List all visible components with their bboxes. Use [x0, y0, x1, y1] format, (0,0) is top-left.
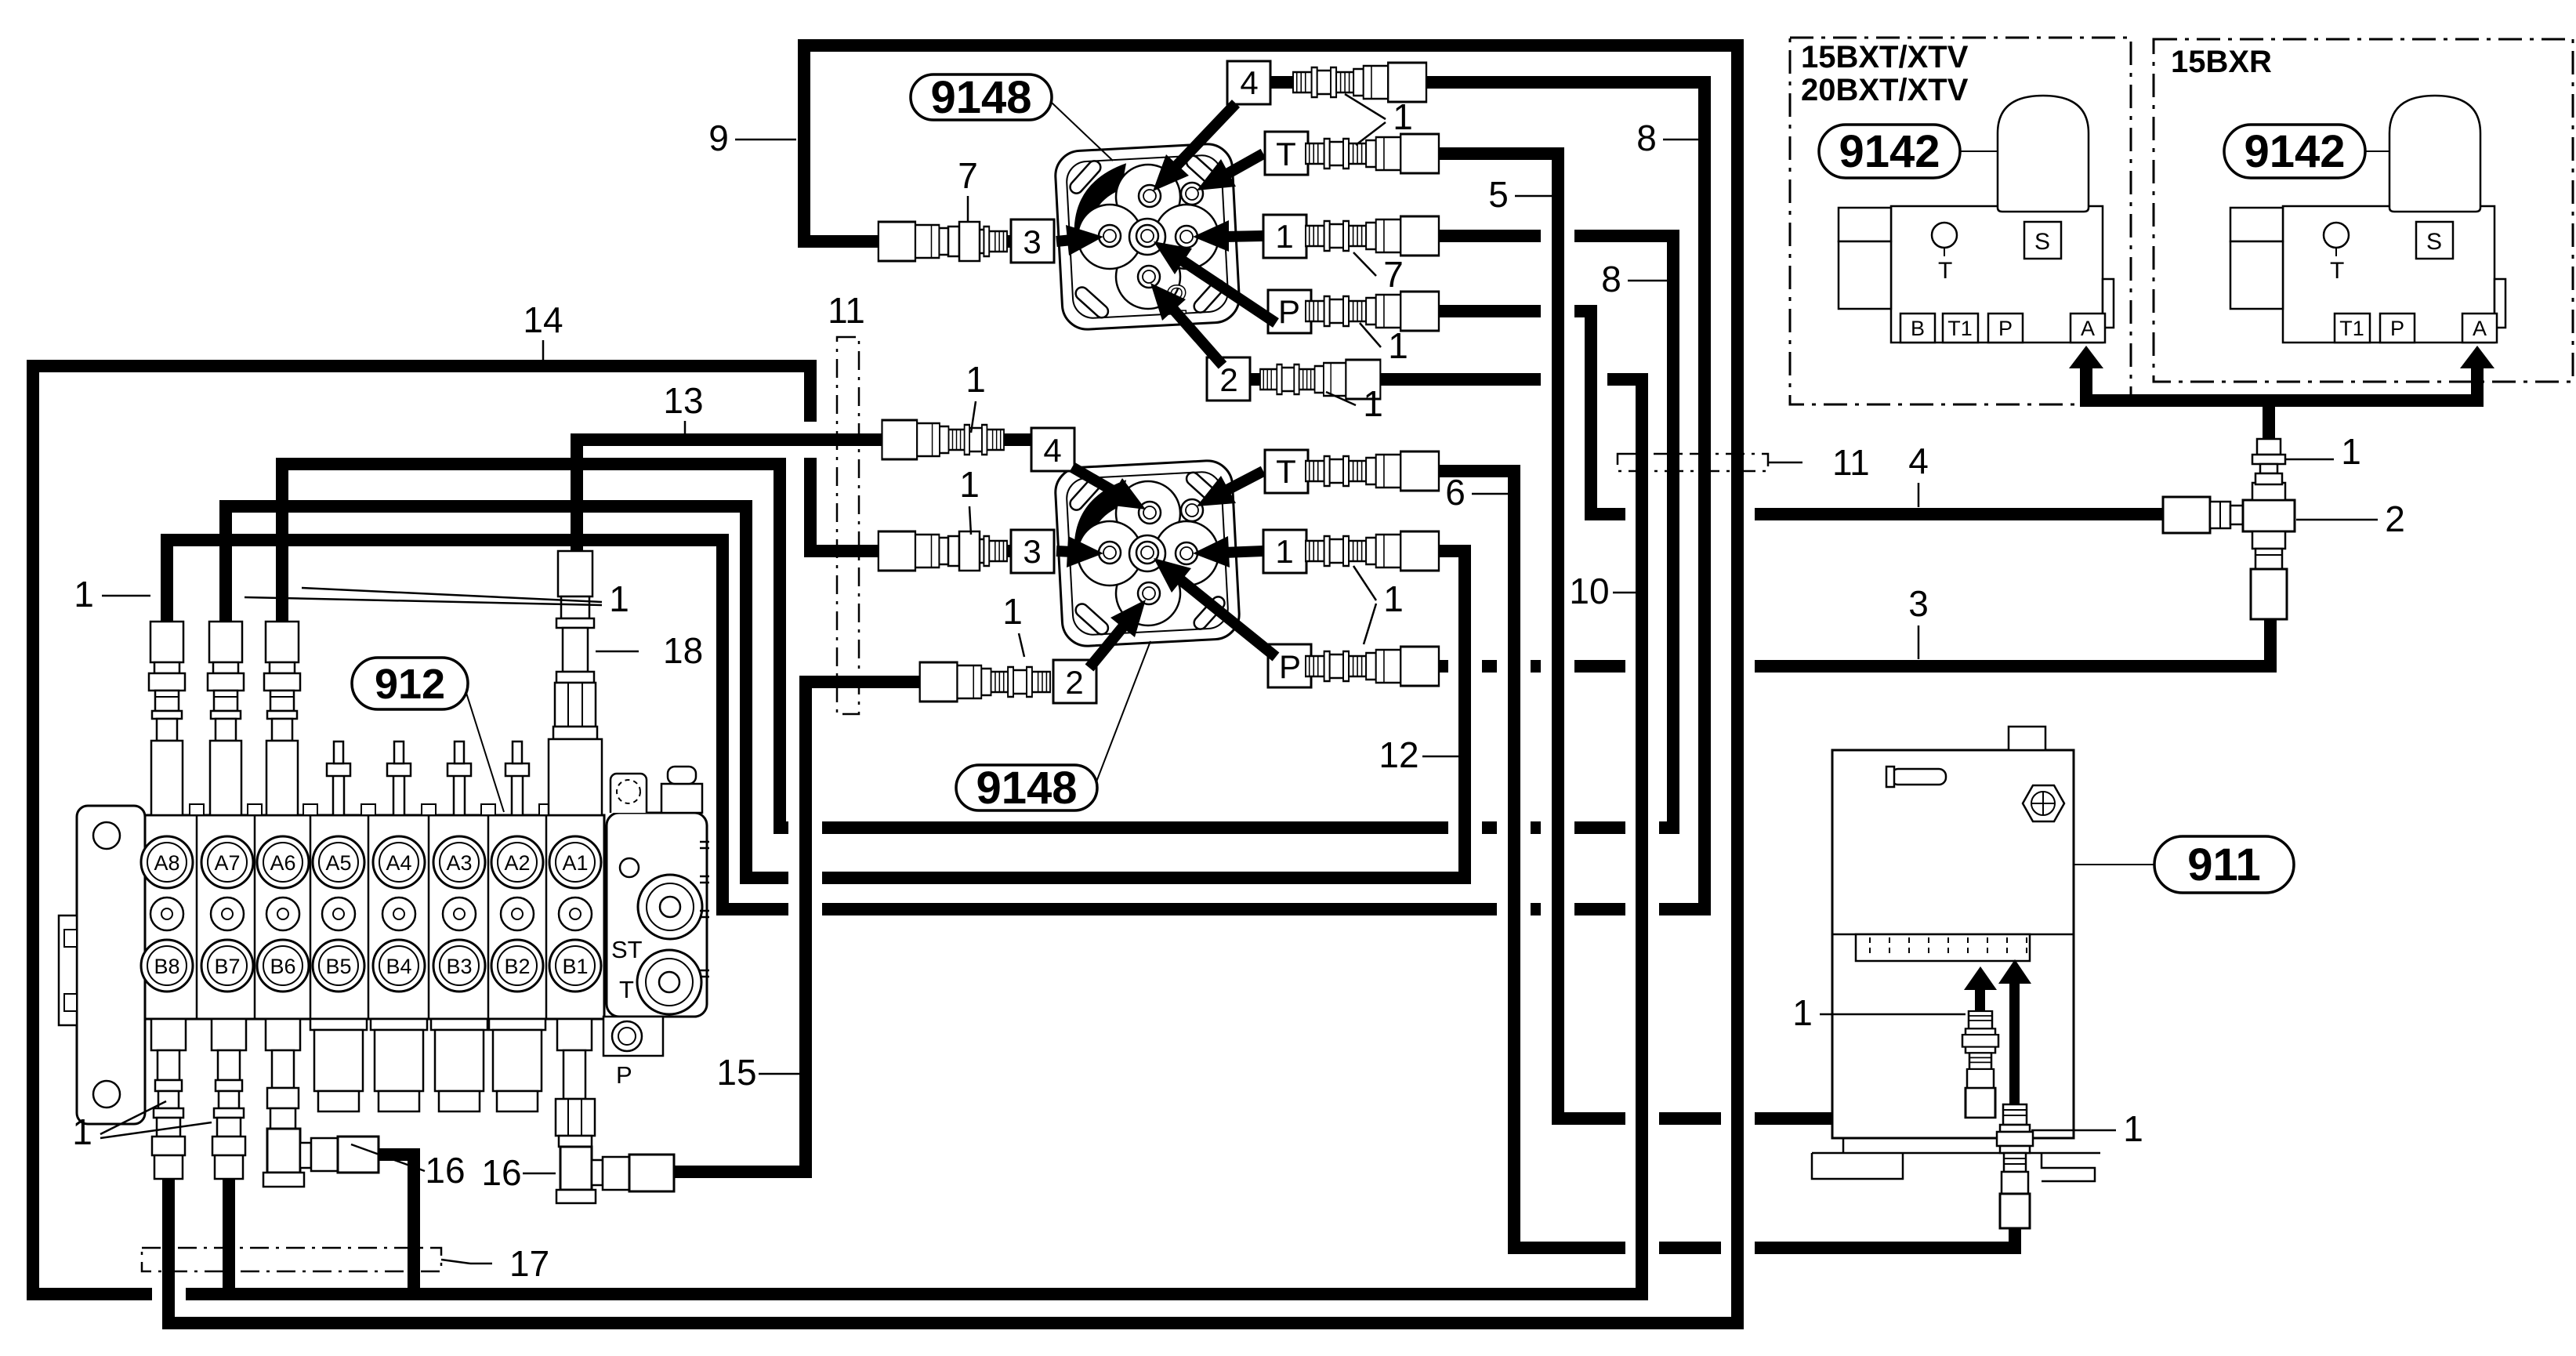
- svg-text:12: 12: [1379, 734, 1418, 775]
- svg-text:A5: A5: [325, 851, 351, 875]
- valve section port A1: [549, 836, 601, 888]
- elbow fitting 16 below B6: [263, 1019, 379, 1187]
- wire: hose 13 riser: [571, 433, 583, 564]
- wire: hose 8b valve row: [276, 458, 786, 470]
- svg-text:1: 1: [959, 464, 980, 505]
- svg-text:1: 1: [2341, 431, 2361, 472]
- wire: hose 13 horizontal (valve inlet 18 to lower joystick port 4): [571, 433, 1038, 446]
- wire: supply line to pilot units: [2080, 394, 2484, 407]
- valve section port B5: [313, 940, 364, 992]
- svg-text:A7: A7: [214, 851, 240, 875]
- valve section port A7: [201, 836, 253, 888]
- wire: hose 8b port-1 row: [1433, 230, 1679, 242]
- arrow into tank (right inlet): [2009, 978, 2020, 1110]
- svg-text:P: P: [1998, 317, 2013, 340]
- svg-text:4: 4: [1043, 432, 1061, 469]
- svg-text:18: 18: [663, 630, 703, 671]
- fitting chain on hose 14 (left of lower joystick): [879, 531, 1007, 571]
- port label box 1 (lower): [1263, 530, 1306, 573]
- valve section port B7: [201, 940, 253, 992]
- wire: hose 8a valve riser: [161, 534, 173, 628]
- tank 911 body: [1832, 727, 2074, 1138]
- solenoid cover below section x=660: [489, 1019, 545, 1111]
- wire: hose 10 drop vertical: [408, 1148, 420, 1300]
- port label box 2 (top): [1207, 357, 1250, 401]
- end block tick marks: [700, 842, 709, 977]
- wire: hose 14 port-3 row: [804, 545, 1017, 557]
- svg-text:1: 1: [1363, 383, 1383, 424]
- svg-text:B2: B2: [504, 955, 530, 978]
- port label box 2 (lower): [1053, 660, 1096, 703]
- wire: hose 9 left vertical: [798, 39, 810, 248]
- svg-text:6: 6: [1445, 472, 1466, 513]
- svg-text:A4: A4: [386, 851, 411, 875]
- wire: hose 8a mid vertical: [716, 534, 729, 915]
- svg-text:B6: B6: [270, 955, 295, 978]
- label 17: [441, 1260, 470, 1264]
- svg-text:1: 1: [1388, 325, 1408, 366]
- wire: hose 9 right vertical: [1731, 39, 1744, 1329]
- callout oval 9142 (left): [1959, 150, 1998, 152]
- svg-text:4: 4: [1908, 441, 1929, 481]
- label 11 right: [1768, 462, 1802, 464]
- arrow P to port (lower): [1178, 578, 1276, 657]
- svg-text:T: T: [2330, 258, 2344, 284]
- wire crossing gaps: [788, 812, 822, 843]
- svg-text:11: 11: [1832, 442, 1870, 483]
- valve block body 912: [145, 815, 604, 1019]
- wire: hose 5 tank horizontal: [1552, 1112, 1987, 1125]
- wire: hose 9 port-3 row: [798, 235, 1017, 248]
- valve section port B2: [491, 940, 543, 992]
- arrow into tank (left inlet): [1975, 984, 1985, 1017]
- port label box P (lower): [1268, 644, 1311, 687]
- wire: hose 8a right vertical: [1698, 76, 1711, 915]
- svg-text:3: 3: [1023, 533, 1041, 570]
- valve section spool circle 2: [501, 897, 534, 930]
- bulkhead frame pass-through 11 (left, vertical): [837, 337, 859, 714]
- svg-text:T: T: [1276, 453, 1296, 490]
- tank strainer: [1856, 934, 2030, 961]
- wire: hose 4 port-P row: [1304, 305, 1597, 317]
- valve end block top plug: [610, 774, 647, 813]
- solenoid cover below section x=509: [371, 1019, 427, 1111]
- svg-text:912: 912: [375, 661, 445, 708]
- fitting chain on hose 9 (left of top joystick): [879, 222, 1007, 261]
- svg-text:15: 15: [716, 1052, 756, 1093]
- wire: hose 12 valve riser: [219, 500, 232, 628]
- arrow 1 to port (lower): [1224, 551, 1263, 553]
- pilot cap on section x=586: [447, 741, 471, 815]
- arrow T to port (lower): [1224, 471, 1263, 491]
- arrow 2 to port (lower): [1089, 624, 1125, 668]
- valve section port A2: [491, 836, 543, 888]
- valve section spool circle 6: [266, 897, 299, 930]
- pilot valve unit 9142 (15BXR): [2283, 206, 2494, 343]
- arrow 3 to port (top): [1056, 240, 1072, 241]
- svg-text:7: 7: [958, 155, 978, 196]
- svg-text:3: 3: [1908, 583, 1929, 624]
- fitting stack 1 below valve x=215: [151, 1019, 186, 1179]
- svg-text:ST: ST: [611, 936, 643, 963]
- solenoid cover below section x=586: [431, 1019, 487, 1111]
- port label box 1 (top): [1263, 215, 1306, 258]
- port label box 4 (lower): [1031, 428, 1074, 471]
- svg-text:9148: 9148: [930, 72, 1031, 123]
- valve end block dome nut: [661, 767, 702, 813]
- svg-text:T: T: [1938, 258, 1952, 284]
- svg-text:16: 16: [425, 1150, 465, 1191]
- svg-text:15BXT/XTV: 15BXT/XTV: [1801, 40, 1969, 74]
- svg-text:9148: 9148: [976, 763, 1077, 814]
- fitting 18 column on valve inlet: [549, 551, 602, 815]
- fitting 1 at tank right inlet: [1997, 1104, 2033, 1228]
- svg-text:1: 1: [1275, 533, 1293, 570]
- wire: tank left inlet stub: [1974, 1107, 1987, 1125]
- svg-text:S: S: [2426, 229, 2442, 255]
- svg-text:4: 4: [1240, 64, 1258, 101]
- wire: hose 14 mid vertical (lower joystick port 3 riser): [804, 360, 817, 557]
- arrow into right unit port A: [2471, 361, 2484, 404]
- wire: hose 8b long horizontal: [774, 821, 1679, 834]
- svg-text:911: 911: [2187, 839, 2261, 890]
- valve assembly 912 mounting bracket: [59, 806, 145, 1124]
- svg-text:1: 1: [966, 359, 986, 400]
- wire: hose 8b valve riser: [276, 458, 288, 628]
- wire: hose 3 tee stub: [2264, 613, 2277, 673]
- svg-text:3: 3: [1023, 223, 1041, 260]
- fitting chain on hose 10: [1260, 360, 1380, 399]
- wire: hose 15 port-2 row: [799, 676, 926, 688]
- svg-text:P: P: [2390, 317, 2404, 340]
- svg-text:P: P: [1278, 293, 1300, 330]
- pilot cap on section x=660: [505, 741, 529, 815]
- pilot valve unit 9142 (15BXT/XTV): [1891, 206, 2103, 343]
- wire: tank right inlet stub: [2009, 1213, 2021, 1254]
- arrow T to port (top): [1224, 154, 1263, 176]
- pilot cap on section x=509: [387, 741, 411, 815]
- wire: supply line stem from tee: [2263, 394, 2275, 448]
- svg-text:8: 8: [1636, 118, 1657, 158]
- svg-text:14: 14: [523, 299, 563, 340]
- svg-text:20BXT/XTV: 20BXT/XTV: [1801, 73, 1969, 107]
- inline union 7 on hose 9: [948, 222, 980, 261]
- dashed option box 15BXR: [2154, 39, 2573, 382]
- port label box 4 (top): [1227, 61, 1270, 104]
- valve end inlet block: [607, 813, 707, 1017]
- fitting chain on hose 4: [1306, 292, 1439, 331]
- svg-text:A3: A3: [446, 851, 472, 875]
- svg-text:B7: B7: [214, 955, 240, 978]
- fitting stack 1 below valve x=292: [212, 1019, 246, 1179]
- wire: hose 14 bottom horizontal: [27, 1288, 426, 1300]
- svg-text:1: 1: [1792, 992, 1813, 1033]
- arrow 1 to port (top): [1224, 236, 1263, 237]
- fitting stack 1 on valve top x=360: [264, 622, 300, 741]
- wire: hose 5 vertical: [1552, 147, 1564, 1125]
- wire: hose 14 B7 riser: [223, 1154, 235, 1300]
- wire: hose 14 top horizontal: [27, 360, 817, 372]
- svg-text:9: 9: [708, 118, 729, 158]
- wire: hose 8a valve row: [161, 534, 729, 546]
- svg-text:P: P: [1279, 648, 1301, 685]
- svg-text:B1: B1: [562, 955, 588, 978]
- wire: hose 10 port-2 row: [1244, 373, 1648, 386]
- valve section port B3: [433, 940, 485, 992]
- svg-text:T: T: [619, 976, 634, 1003]
- wire: hose 12 mid vertical: [740, 500, 752, 884]
- valve end block P port: [603, 1017, 663, 1089]
- callout oval 9142 (right): [2364, 150, 2389, 152]
- arrow 3 to port (lower): [1056, 551, 1072, 552]
- svg-text:7: 7: [1383, 254, 1404, 295]
- svg-text:1: 1: [1275, 218, 1293, 255]
- svg-text:10: 10: [1569, 571, 1609, 611]
- svg-text:17: 17: [509, 1243, 549, 1284]
- svg-text:9142: 9142: [1839, 126, 1940, 177]
- bulkhead frame pass-through 17 (bottom, horizontal): [142, 1248, 441, 1271]
- dashed option box 15BXT/XTV 20BXT/XTV: [1790, 38, 2131, 404]
- port label box T (top): [1265, 132, 1308, 175]
- wire: hose 9 B8 riser: [162, 1154, 175, 1329]
- svg-text:1: 1: [1002, 591, 1023, 632]
- wire: hose 8b right vertical: [1667, 230, 1679, 834]
- svg-text:9142: 9142: [2244, 126, 2345, 177]
- arrow P to port (top): [1179, 259, 1276, 323]
- svg-text:A6: A6: [270, 851, 295, 875]
- valve section port B6: [257, 940, 309, 992]
- svg-text:8: 8: [1601, 259, 1621, 299]
- svg-text:16: 16: [481, 1152, 521, 1193]
- valve section spool circle 7: [211, 897, 244, 930]
- wire: hose 14 left vertical: [27, 360, 39, 1300]
- svg-text:1: 1: [74, 574, 94, 615]
- fitting chain on hose 6: [1306, 451, 1439, 491]
- valve section port B1: [549, 940, 601, 992]
- arrow 4 to port (top): [1174, 103, 1236, 169]
- svg-text:B5: B5: [325, 955, 351, 978]
- valve section port A8: [141, 836, 193, 888]
- elbow fitting 16 below B1: [556, 1019, 674, 1203]
- arrow 4 to port (lower): [1072, 467, 1118, 494]
- wire: hose 12 right vertical: [1458, 545, 1471, 884]
- svg-text:B8: B8: [154, 955, 179, 978]
- tank base flange: [1812, 1138, 2100, 1181]
- svg-text:2: 2: [2385, 499, 2405, 539]
- valve section top bolt tabs: [190, 804, 553, 815]
- port label box P (top): [1268, 290, 1311, 333]
- union nut left of tee: [2210, 502, 2243, 528]
- label 18: [596, 651, 639, 653]
- svg-text:A: A: [2081, 317, 2095, 340]
- wire: hose 9 top horizontal: [798, 39, 1744, 52]
- valve section port A4: [373, 836, 425, 888]
- tee fitting 2 body: [2243, 483, 2295, 549]
- callout oval 912: [466, 693, 504, 812]
- wire: hose 15 elbow outlet: [668, 1166, 812, 1178]
- svg-text:15BXR: 15BXR: [2171, 45, 2272, 79]
- svg-text:1: 1: [1383, 578, 1404, 619]
- svg-text:1: 1: [72, 1111, 92, 1152]
- valve section port A3: [433, 836, 485, 888]
- tee bottom stack: [2251, 549, 2287, 619]
- svg-text:1: 1: [2123, 1108, 2143, 1149]
- svg-text:1: 1: [609, 578, 629, 619]
- svg-text:2: 2: [1219, 361, 1237, 398]
- wire: hose 6 tank horizontal: [1508, 1242, 2021, 1254]
- svg-text:11: 11: [828, 290, 865, 331]
- callout oval 911: [2074, 864, 2154, 865]
- valve section spool circle 5: [322, 897, 355, 930]
- svg-text:P: P: [616, 1061, 632, 1089]
- valve section spool circle 4: [382, 897, 415, 930]
- valve section port A6: [257, 836, 309, 888]
- valve section spool circle 3: [443, 897, 476, 930]
- svg-text:13: 13: [663, 380, 703, 421]
- wire: hose 6 vertical: [1508, 465, 1520, 1254]
- fitting chain on hose 13: [882, 420, 1004, 459]
- svg-text:A8: A8: [154, 851, 179, 875]
- valve section spool circle 1: [559, 897, 592, 930]
- pilot cap on section x=432: [327, 741, 350, 815]
- fitting chain on hose 3: [1306, 647, 1439, 686]
- wire: hose 12 long horizontal: [740, 872, 1471, 884]
- wire: hose 10 elbow outlet: [371, 1148, 420, 1161]
- wire: hose 6 port-T row: [1301, 465, 1520, 477]
- svg-text:A: A: [2473, 317, 2487, 340]
- tank filler pin: [1886, 767, 1946, 787]
- wire: hose 12 valve row: [219, 500, 752, 513]
- svg-text:A2: A2: [504, 851, 530, 875]
- svg-text:T1: T1: [2339, 317, 2364, 340]
- fitting chain on hose 15: [920, 662, 1050, 702]
- svg-text:A1: A1: [562, 851, 588, 875]
- port label box T (lower): [1265, 450, 1308, 493]
- wire: hose 10 right vertical: [1636, 373, 1648, 1300]
- bulkhead frame pass-through 11 (right, horizontal): [1618, 454, 1768, 471]
- fitting 1 at tank left inlet: [1962, 1011, 1998, 1118]
- valve section port A5: [313, 836, 364, 888]
- wire: hose 10 bottom horizontal: [408, 1288, 1648, 1300]
- fitting stack 1 on valve top x=213: [149, 622, 185, 741]
- valve section spool circle 8: [150, 897, 183, 930]
- wire: hose 8b mid vertical: [774, 458, 786, 834]
- wire: hose 4 vertical: [1585, 305, 1597, 520]
- remote control valve 9148 (top): [1054, 143, 1241, 331]
- svg-text:B: B: [1911, 317, 1925, 340]
- wire: hose 4 tee horizontal: [1585, 508, 2169, 520]
- inline union on hose 14: [948, 531, 980, 571]
- remote control valve 9148 (lower): [1054, 459, 1241, 647]
- wire: hose 8a port-4 row: [1267, 76, 1711, 89]
- svg-text:T: T: [1276, 136, 1296, 172]
- callout oval 9148 (top): [1051, 102, 1113, 161]
- callout oval 9148 (lower): [1096, 641, 1150, 784]
- wire: hose 9 bottom horizontal: [162, 1317, 1744, 1329]
- wire: hose 5 port-T row: [1301, 147, 1564, 160]
- svg-text:T1: T1: [1947, 317, 1973, 340]
- wire: hose 12 port-1 stub: [1433, 545, 1471, 557]
- port label box 3 (top): [1011, 219, 1054, 263]
- solenoid cover below section x=432: [310, 1019, 367, 1111]
- wire: hose 15 vertical: [799, 676, 812, 1178]
- valve section port B4: [373, 940, 425, 992]
- arrow into left unit port A: [2080, 361, 2092, 404]
- arrow 2 to port (top): [1171, 306, 1223, 365]
- fitting chain on hose 8b: [1306, 216, 1439, 256]
- svg-text:2: 2: [1065, 664, 1083, 701]
- svg-text:B3: B3: [446, 955, 472, 978]
- hose end at tee left: [2163, 497, 2210, 533]
- tee top stack (bulkhead 1): [2252, 439, 2285, 484]
- svg-text:1: 1: [1393, 96, 1413, 137]
- valve section dividers: [197, 815, 546, 1019]
- fitting chain on hose 5: [1306, 134, 1439, 173]
- wire: hose 3 long horizontal (lower P to tee): [1304, 660, 2277, 673]
- svg-text:S: S: [2034, 229, 2050, 255]
- fitting stack 1 on valve top x=288: [208, 622, 244, 741]
- valve section port B8: [141, 940, 193, 992]
- fitting chain on hose 8a: [1293, 63, 1426, 102]
- svg-text:B4: B4: [386, 955, 411, 978]
- fitting chain on hose 12: [1306, 531, 1439, 571]
- port label box 3 (lower): [1011, 530, 1054, 573]
- svg-text:5: 5: [1488, 174, 1509, 215]
- tank breather bolt: [2023, 785, 2064, 821]
- wire: hose 8a long horizontal: [716, 903, 1711, 915]
